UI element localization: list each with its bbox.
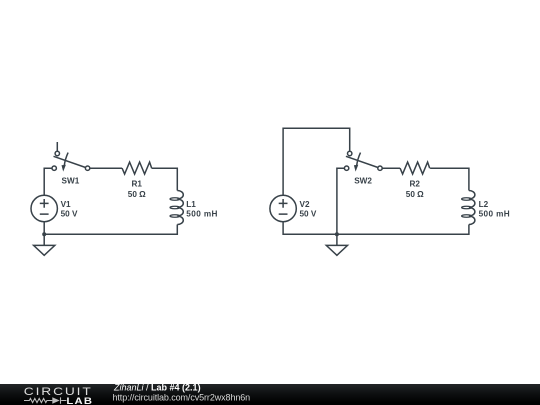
svg-text:50 Ω: 50 Ω xyxy=(128,190,146,199)
svg-text:ZihanLi / Lab #4 (2.1): ZihanLi / Lab #4 (2.1) xyxy=(113,383,201,393)
svg-text:http://circuitlab.com/cv5rr2wx: http://circuitlab.com/cv5rr2wx8hn6n xyxy=(113,392,251,402)
svg-text:L2: L2 xyxy=(479,200,489,209)
svg-text:50 V: 50 V xyxy=(61,209,78,218)
svg-text:50 Ω: 50 Ω xyxy=(406,190,424,199)
svg-text:L1: L1 xyxy=(186,200,196,209)
svg-text:R1: R1 xyxy=(132,179,143,188)
svg-text:LAB: LAB xyxy=(66,397,93,405)
svg-text:SW2: SW2 xyxy=(354,176,372,185)
svg-text:SW1: SW1 xyxy=(62,176,80,185)
svg-text:500 mH: 500 mH xyxy=(186,209,218,218)
svg-text:500 mH: 500 mH xyxy=(479,209,511,218)
svg-text:50 V: 50 V xyxy=(300,209,317,218)
svg-text:V1: V1 xyxy=(61,200,71,209)
svg-text:V2: V2 xyxy=(300,200,310,209)
svg-text:R2: R2 xyxy=(410,179,421,188)
